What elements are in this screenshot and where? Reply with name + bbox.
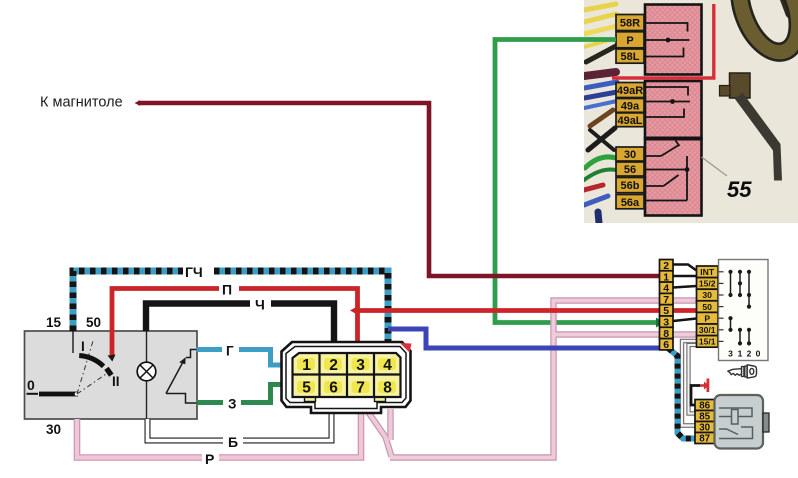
photo fragment of light-switch diagram (scan) [584, 0, 798, 223]
svg-text:85: 85 [699, 411, 710, 422]
svg-text:58L: 58L [621, 51, 640, 63]
svg-text:Г: Г [226, 344, 234, 359]
jumper wires between strips [673, 265, 697, 322]
svg-text:P: P [704, 313, 710, 323]
svg-text:15: 15 [46, 315, 62, 330]
wire ГЧ hatched (blue/black) [73, 271, 388, 343]
svg-text:Б: Б [228, 434, 238, 450]
svg-text:49aL: 49aL [617, 115, 642, 127]
svg-text:1: 1 [302, 357, 311, 374]
svg-text:6: 6 [663, 339, 669, 351]
svg-text:30: 30 [624, 149, 636, 161]
pointer line to 55 [702, 157, 728, 176]
lamp wire inside box [146, 331, 148, 363]
photo connector labels 58R P 58L 49aR 49a 49aL 30 56 56b 56a [616, 15, 644, 209]
illumination lamp [137, 362, 156, 381]
wire hatched pin6 to relay 87 [668, 348, 695, 439]
box3 contacts [645, 141, 687, 201]
svg-text:8: 8 [383, 380, 392, 397]
box1 contacts [645, 23, 690, 57]
steering wheel arc photo [780, 0, 798, 28]
wire Р pink [77, 411, 361, 458]
svg-text:1: 1 [738, 349, 743, 359]
svg-text:П: П [222, 282, 232, 298]
red arrow marker at connector corner [400, 343, 412, 353]
svg-text:К магнитоле: К магнитоле [40, 95, 123, 111]
rotor arc [79, 356, 103, 367]
svg-text:56a: 56a [621, 197, 640, 209]
wire Ч black from lamp [146, 304, 334, 344]
svg-text:3: 3 [728, 349, 733, 359]
svg-text:З: З [228, 397, 236, 412]
wire Г cyan [197, 350, 282, 366]
node green arrow at pin 3 [656, 318, 664, 328]
svg-text:55: 55 [727, 177, 752, 202]
svg-text:I: I [81, 339, 85, 354]
svg-text:2: 2 [329, 357, 338, 374]
dash-dot position lines [77, 341, 109, 394]
stalk photo [735, 93, 782, 181]
svg-text:Ч: Ч [255, 297, 265, 313]
contact 15 stub inside box [72, 331, 74, 353]
starter relay box [715, 395, 764, 449]
wire black relay 86 to + [691, 386, 700, 406]
svg-text:0: 0 [27, 377, 35, 393]
svg-text:30: 30 [46, 422, 61, 437]
8-pin connector X1 [282, 342, 411, 413]
svg-text:58R: 58R [620, 18, 640, 30]
svg-text:86: 86 [699, 400, 710, 411]
svg-text:7: 7 [356, 380, 365, 397]
red highlight frame in photo [612, 4, 716, 78]
svg-text:1: 1 [663, 271, 669, 283]
wire З green [197, 385, 282, 403]
svg-text:49aR: 49aR [617, 85, 643, 97]
wire green P-to-pin3 [495, 40, 658, 323]
svg-text:7: 7 [663, 294, 669, 306]
wire blue branch to pin 6 [388, 329, 660, 348]
svg-text:87: 87 [699, 433, 710, 444]
svg-text:8: 8 [663, 328, 669, 340]
svg-text:2: 2 [747, 349, 752, 359]
svg-text:15/1: 15/1 [699, 337, 716, 347]
contact II tick [107, 368, 112, 375]
key symbol [728, 365, 757, 378]
svg-text:INT: INT [700, 267, 715, 277]
wire white 15/1 to relay 30 [682, 341, 697, 426]
svg-text:30/1: 30/1 [699, 325, 716, 335]
svg-text:56b: 56b [621, 180, 640, 192]
svg-text:II: II [112, 374, 120, 389]
svg-text:ГЧ: ГЧ [185, 264, 203, 280]
svg-text:30: 30 [699, 422, 710, 433]
wire П red from 50 [112, 289, 358, 358]
pink relay box 1 (58R P 58L) [645, 5, 702, 75]
svg-text:P: P [626, 35, 633, 47]
svg-text:15/2: 15/2 [699, 279, 716, 289]
svg-text:56: 56 [624, 164, 636, 176]
ignition contact strip INT 15/2 30 50 P 30/1 15/1 [697, 266, 719, 347]
relay pin labels 86 85 30 87 [695, 400, 715, 444]
wire pink to 30 and 30/1 [364, 301, 697, 458]
svg-text:4: 4 [663, 283, 669, 295]
wire bundle photo left edge [584, 4, 617, 223]
switch position table box [719, 260, 769, 361]
svg-text:Р: Р [205, 451, 214, 467]
wire white 15/1 to relay 85 [689, 345, 697, 414]
svg-text:5: 5 [302, 380, 311, 397]
svg-text:50: 50 [702, 302, 712, 312]
svg-text:3: 3 [663, 317, 669, 329]
wire red long to 50 cell [354, 308, 697, 313]
svg-text:6: 6 [329, 380, 338, 397]
svg-text:3: 3 [356, 357, 365, 374]
connector strip pins 2 1 4 7 5 3 8 6 [660, 260, 674, 350]
svg-text:49a: 49a [621, 101, 640, 113]
wire Б white [148, 411, 332, 441]
svg-text:30: 30 [702, 290, 712, 300]
ignition lock photo [730, 73, 751, 98]
wire dark-red К магнитоле [138, 103, 659, 276]
svg-text:5: 5 [663, 305, 669, 317]
svg-text:0: 0 [756, 349, 761, 359]
ignition switch box [25, 331, 198, 419]
rotor contact arm [39, 392, 78, 397]
lock-contact symbol [166, 350, 197, 404]
box2 contacts [645, 87, 690, 117]
pink relay box 2 (49a group) [645, 81, 702, 139]
pink relay box 3 (56 group) [645, 139, 702, 216]
svg-text:2: 2 [663, 260, 669, 272]
svg-text:4: 4 [383, 357, 392, 374]
svg-text:50: 50 [86, 315, 101, 330]
